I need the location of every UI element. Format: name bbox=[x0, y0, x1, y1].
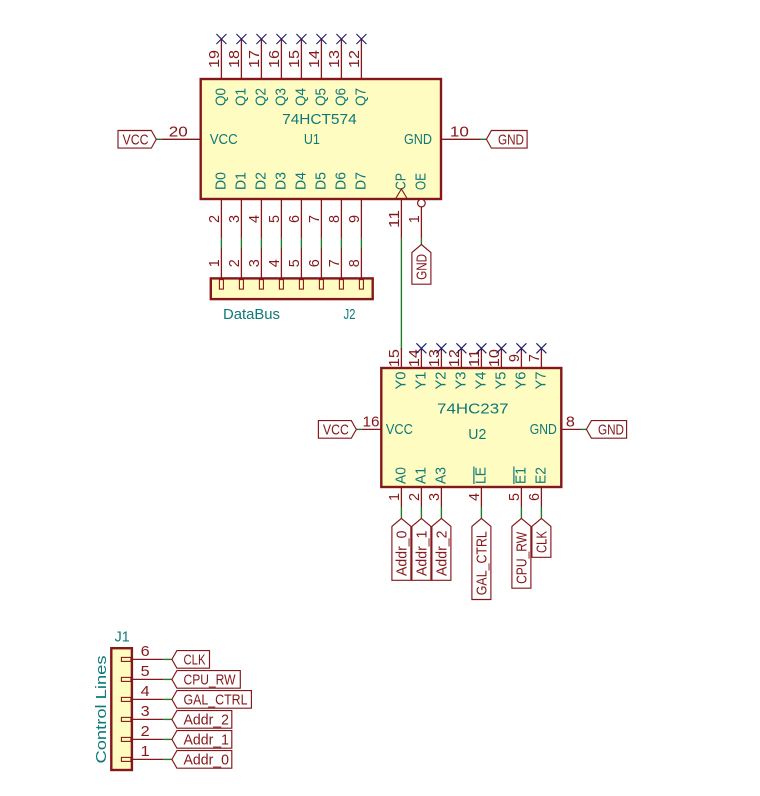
U1 pin 8 (D6) bottom bbox=[326, 172, 349, 239]
svg-text:E1: E1 bbox=[512, 467, 529, 484]
svg-text:CPU_RW: CPU_RW bbox=[184, 671, 237, 688]
J2 value DataBus bbox=[223, 306, 280, 323]
svg-text:2: 2 bbox=[141, 723, 150, 740]
svg-text:3: 3 bbox=[226, 215, 243, 223]
svg-text:4: 4 bbox=[141, 683, 150, 700]
U1 pin 15 (Q4) top bbox=[286, 39, 309, 106]
svg-text:5: 5 bbox=[286, 259, 303, 267]
svg-text:Y4: Y4 bbox=[472, 372, 489, 390]
svg-text:D4: D4 bbox=[292, 172, 309, 190]
no-connect X on U1 pin 14 bbox=[316, 34, 326, 44]
U1 pin 2 (D0) bottom bbox=[206, 172, 229, 239]
U1 pin 10 (GND) right bbox=[404, 123, 481, 148]
svg-text:VCC: VCC bbox=[323, 421, 349, 438]
svg-text:Q4: Q4 bbox=[292, 88, 309, 106]
J2 pin 7 bbox=[326, 248, 343, 289]
global label GND (below U1 OE) bbox=[412, 245, 431, 285]
U1 pin 11 (CP clock) bottom bbox=[386, 173, 409, 239]
U2 pin 7 (Y7) top bbox=[526, 348, 549, 389]
J1 pin 1 bbox=[121, 743, 163, 761]
U2 pin 4 (LE) bottom bbox=[466, 467, 489, 508]
wire J1 pin 6 to CLK label bbox=[163, 658, 172, 660]
no-connect X on U2 pin 9 bbox=[516, 343, 526, 353]
svg-text:Q5: Q5 bbox=[312, 88, 329, 106]
svg-text:J1: J1 bbox=[115, 629, 130, 646]
J1 pin 4 bbox=[121, 683, 163, 701]
svg-text:D2: D2 bbox=[252, 172, 269, 190]
IC U1 74HCT574 body bbox=[201, 79, 441, 199]
U2 pin 2 (A1) bottom bbox=[406, 467, 429, 507]
no-connect X on U1 pin 16 bbox=[276, 34, 286, 44]
global label CPU_RW (right of J1) bbox=[172, 671, 240, 689]
U1 pin 14 (Q5) top bbox=[306, 39, 329, 106]
svg-text:A3: A3 bbox=[432, 467, 449, 484]
svg-text:19: 19 bbox=[206, 50, 223, 68]
svg-text:Y6: Y6 bbox=[512, 372, 529, 390]
wire U2 E1 to CPU_RW label bbox=[520, 507, 522, 518]
J1 pin 6 bbox=[121, 643, 163, 661]
global label Addr_2 (right of J1) bbox=[172, 711, 232, 729]
no-connect X on U1 pin 19 bbox=[216, 34, 226, 44]
wire U1 D1 to J2 pin 2 bbox=[240, 239, 242, 248]
U1 pin 13 (Q6) top bbox=[326, 39, 349, 106]
global label Addr_0 (below U2) bbox=[392, 518, 411, 580]
U1 pin 1 (OE output enable) bottom with inversion bubble bbox=[406, 173, 429, 239]
svg-text:8: 8 bbox=[326, 215, 343, 223]
U2 pin 5 (E1) bottom bbox=[506, 467, 529, 508]
wire U2 LE to GAL_CTRL label bbox=[480, 507, 482, 518]
clock input triangle on U1 CP pin bbox=[395, 189, 407, 199]
U2 pin 12 (Y3) top bbox=[446, 348, 469, 389]
svg-text:GND: GND bbox=[413, 254, 430, 280]
U2 pin 16 (VCC) left bbox=[361, 413, 413, 438]
svg-text:Addr_1: Addr_1 bbox=[413, 531, 430, 577]
no-connect X on U2 pin 13 bbox=[436, 343, 446, 353]
J2 pin 1 bbox=[206, 248, 223, 289]
svg-text:Addr_2: Addr_2 bbox=[184, 711, 230, 728]
wire U1 D0 to J2 pin 1 bbox=[220, 239, 222, 248]
svg-text:Y0: Y0 bbox=[392, 372, 409, 390]
no-connect X on U2 pin 10 bbox=[496, 343, 506, 353]
U1 pin 4 (D2) bottom bbox=[246, 172, 269, 239]
svg-text:DataBus: DataBus bbox=[223, 306, 280, 323]
svg-text:Y5: Y5 bbox=[492, 372, 509, 390]
svg-text:Y3: Y3 bbox=[452, 372, 469, 390]
U2 pin 1 (A0) bottom bbox=[386, 467, 409, 507]
wire J1 pin 4 to GAL_CTRL label bbox=[163, 698, 172, 700]
svg-text:9: 9 bbox=[506, 354, 523, 362]
svg-text:5: 5 bbox=[266, 215, 283, 223]
svg-text:2: 2 bbox=[206, 215, 223, 223]
svg-text:20: 20 bbox=[169, 123, 188, 140]
svg-text:Q3: Q3 bbox=[272, 88, 289, 106]
svg-text:1: 1 bbox=[141, 743, 150, 760]
connector J1 body bar bbox=[111, 648, 132, 770]
wire U1 D7 to J2 pin 8 bbox=[360, 239, 362, 248]
svg-text:3: 3 bbox=[246, 259, 263, 267]
U2 pin 6 (E2) bottom bbox=[526, 467, 549, 507]
J1 pin 5 bbox=[121, 663, 163, 681]
connector J2 body bar bbox=[211, 278, 373, 299]
no-connect X on U1 pin 17 bbox=[256, 34, 266, 44]
J1 pin 2 bbox=[121, 723, 163, 741]
global label CLK (below U2) bbox=[532, 518, 551, 557]
J2 pin 8 bbox=[346, 248, 363, 289]
U2 pin 14 (Y1) top bbox=[406, 348, 429, 389]
wire U2 A0 to Addr_0 label bbox=[400, 507, 402, 518]
svg-text:3: 3 bbox=[426, 493, 443, 501]
svg-text:Control Lines: Control Lines bbox=[93, 656, 110, 764]
svg-text:14: 14 bbox=[306, 50, 323, 68]
wire U1 pin 1 (OE) to GND label bbox=[420, 239, 422, 245]
U1 pin 7 (D5) bottom bbox=[306, 172, 329, 239]
svg-text:15: 15 bbox=[386, 349, 403, 367]
U2 pin 9 (Y6) top bbox=[506, 348, 529, 389]
global label CLK (right of J1) bbox=[172, 651, 210, 669]
svg-text:D3: D3 bbox=[272, 172, 289, 190]
J2 reference designator bbox=[344, 306, 356, 323]
svg-text:CLK: CLK bbox=[184, 651, 206, 668]
global label GND (right of U2) bbox=[586, 421, 626, 439]
svg-text:6: 6 bbox=[306, 259, 323, 267]
svg-text:GAL_CTRL: GAL_CTRL bbox=[473, 531, 490, 595]
svg-text:Q2: Q2 bbox=[252, 88, 269, 106]
svg-text:5: 5 bbox=[141, 663, 150, 680]
U2 pin 13 (Y2) top bbox=[426, 348, 449, 389]
svg-text:12: 12 bbox=[346, 50, 363, 68]
wire U1 D2 to J2 pin 3 bbox=[260, 239, 262, 248]
svg-text:D7: D7 bbox=[352, 172, 369, 190]
wire U1 D3 to J2 pin 4 bbox=[280, 239, 282, 248]
svg-text:11: 11 bbox=[386, 210, 403, 228]
J2 pin 4 bbox=[266, 248, 283, 289]
svg-text:Q0: Q0 bbox=[212, 88, 229, 106]
svg-text:U1: U1 bbox=[304, 131, 320, 148]
svg-text:LE: LE bbox=[472, 467, 489, 484]
svg-text:16: 16 bbox=[266, 50, 283, 68]
global label CPU_RW (below U2) bbox=[512, 518, 531, 588]
J2 pin 6 bbox=[306, 248, 323, 289]
svg-text:Addr_2: Addr_2 bbox=[433, 531, 450, 577]
svg-text:U2: U2 bbox=[468, 426, 486, 443]
svg-text:10: 10 bbox=[486, 349, 503, 367]
svg-text:D5: D5 bbox=[312, 172, 329, 190]
svg-text:GND: GND bbox=[404, 131, 432, 148]
svg-text:74HCT574: 74HCT574 bbox=[282, 111, 357, 128]
global label VCC (left of U1) bbox=[118, 131, 156, 149]
svg-text:GAL_CTRL: GAL_CTRL bbox=[184, 691, 248, 708]
svg-text:13: 13 bbox=[326, 50, 343, 68]
global label Addr_0 (right of J1) bbox=[172, 751, 232, 769]
wire VCC label to U2 pin 16 bbox=[356, 428, 361, 430]
svg-text:GND: GND bbox=[530, 421, 557, 438]
J1 reference designator bbox=[115, 629, 130, 646]
svg-text:Q7: Q7 bbox=[352, 88, 369, 106]
svg-text:4: 4 bbox=[466, 493, 483, 501]
U1 pin 6 (D4) bottom bbox=[286, 172, 309, 239]
svg-text:VCC: VCC bbox=[210, 131, 238, 148]
svg-text:16: 16 bbox=[363, 413, 380, 430]
svg-text:7: 7 bbox=[326, 259, 343, 267]
svg-text:Y2: Y2 bbox=[432, 372, 449, 390]
wire VCC label to U1 pin 20 bbox=[156, 138, 161, 140]
svg-text:OE: OE bbox=[412, 173, 429, 190]
svg-text:2: 2 bbox=[406, 493, 423, 501]
svg-text:2: 2 bbox=[226, 259, 243, 267]
svg-text:11: 11 bbox=[466, 349, 483, 367]
wire U2 A3 to Addr_2 label bbox=[440, 507, 442, 518]
U1 pin 3 (D1) bottom bbox=[226, 172, 249, 239]
no-connect X on U1 pin 15 bbox=[296, 34, 306, 44]
no-connect X on U2 pin 14 bbox=[416, 343, 426, 353]
svg-text:6: 6 bbox=[526, 493, 543, 501]
no-connect X on U1 pin 18 bbox=[236, 34, 246, 44]
svg-text:6: 6 bbox=[141, 643, 150, 660]
global label GAL_CTRL (below U2) bbox=[472, 518, 491, 599]
wire U2 E2 to CLK label bbox=[540, 507, 542, 518]
svg-text:GND: GND bbox=[498, 131, 524, 148]
J1 pin 3 bbox=[121, 703, 163, 721]
J1 value Control Lines bbox=[93, 656, 110, 764]
U1 pin 9 (D7) bottom bbox=[346, 172, 369, 239]
wire U1 D5 to J2 pin 6 bbox=[320, 239, 322, 248]
svg-text:8: 8 bbox=[566, 413, 575, 430]
no-connect X on U2 pin 11 bbox=[476, 343, 486, 353]
wire U2 A1 to Addr_1 label bbox=[420, 507, 422, 518]
wire U1 D6 to J2 pin 7 bbox=[340, 239, 342, 248]
wire U1 D4 to J2 pin 5 bbox=[300, 239, 302, 248]
U2 pin 3 (A3) bottom bbox=[426, 467, 449, 507]
svg-text:E2: E2 bbox=[532, 467, 549, 484]
svg-text:CLK: CLK bbox=[533, 531, 550, 553]
svg-text:Q6: Q6 bbox=[332, 88, 349, 106]
svg-text:15: 15 bbox=[286, 50, 303, 68]
U1 pin 12 (Q7) top bbox=[346, 39, 369, 106]
U2 value 74HC237 bbox=[437, 401, 509, 418]
svg-text:Q1: Q1 bbox=[232, 88, 249, 106]
svg-text:4: 4 bbox=[246, 215, 263, 223]
no-connect X on U2 pin 12 bbox=[456, 343, 466, 353]
wire U2 pin 8 to GND label bbox=[581, 428, 586, 430]
svg-text:D1: D1 bbox=[232, 172, 249, 190]
svg-text:1: 1 bbox=[386, 493, 403, 501]
svg-text:D0: D0 bbox=[212, 172, 229, 190]
wire J1 pin 3 to Addr_2 label bbox=[163, 718, 172, 720]
svg-text:5: 5 bbox=[506, 493, 523, 501]
wire J1 pin 5 to CPU_RW label bbox=[163, 678, 172, 680]
IC U2 74HC237 body bbox=[381, 368, 561, 487]
svg-text:Addr_1: Addr_1 bbox=[184, 731, 230, 748]
global label GAL_CTRL (right of J1) bbox=[172, 691, 252, 709]
no-connect X on U2 pin 7 bbox=[536, 343, 546, 353]
svg-text:17: 17 bbox=[246, 50, 263, 68]
svg-text:Addr_0: Addr_0 bbox=[184, 751, 230, 768]
U1 pin 16 (Q3) top bbox=[266, 39, 289, 106]
J2 pin 3 bbox=[246, 248, 263, 289]
svg-text:12: 12 bbox=[446, 349, 463, 367]
U2 pin 10 (Y5) top bbox=[486, 348, 509, 389]
U1 pin 17 (Q2) top bbox=[246, 39, 269, 106]
svg-text:14: 14 bbox=[406, 349, 423, 367]
svg-text:13: 13 bbox=[426, 349, 443, 367]
U1 pin 18 (Q1) top bbox=[226, 39, 249, 106]
svg-text:1: 1 bbox=[406, 215, 423, 223]
svg-text:A0: A0 bbox=[392, 467, 409, 484]
J2 pin 5 bbox=[286, 248, 303, 289]
global label GND (right of U1) bbox=[486, 131, 527, 149]
svg-text:6: 6 bbox=[286, 215, 303, 223]
svg-text:9: 9 bbox=[346, 215, 363, 223]
svg-text:4: 4 bbox=[266, 259, 283, 267]
svg-text:7: 7 bbox=[526, 354, 543, 362]
svg-text:Addr_0: Addr_0 bbox=[393, 531, 410, 577]
U1 pin 20 (VCC) left bbox=[161, 123, 238, 148]
wire J1 pin 1 to Addr_0 label bbox=[163, 758, 172, 760]
svg-text:74HC237: 74HC237 bbox=[437, 401, 509, 418]
svg-text:18: 18 bbox=[226, 50, 243, 68]
global label VCC (left of U2) bbox=[318, 421, 356, 439]
svg-text:D6: D6 bbox=[332, 172, 349, 190]
no-connect X on U1 pin 13 bbox=[336, 34, 346, 44]
wire U1 pin 10 to GND label bbox=[481, 138, 487, 140]
svg-text:8: 8 bbox=[346, 259, 363, 267]
U1 value 74HCT574 bbox=[282, 111, 357, 128]
svg-text:VCC: VCC bbox=[123, 131, 149, 148]
wire J1 pin 2 to Addr_1 label bbox=[163, 738, 172, 740]
svg-text:CPU_RW: CPU_RW bbox=[513, 531, 530, 584]
svg-text:A1: A1 bbox=[412, 467, 429, 484]
svg-text:1: 1 bbox=[206, 259, 223, 267]
svg-text:GND: GND bbox=[598, 421, 624, 438]
U2 pin 8 (GND) right bbox=[530, 413, 582, 438]
U1 reference designator bbox=[304, 131, 320, 148]
svg-text:Y1: Y1 bbox=[412, 372, 429, 390]
no-connect X on U1 pin 12 bbox=[356, 34, 366, 44]
svg-text:7: 7 bbox=[306, 215, 323, 223]
U2 pin 11 (Y4) top bbox=[466, 348, 489, 389]
U2 reference designator bbox=[468, 426, 486, 443]
U2 pin 15 (Y0) top bbox=[386, 348, 409, 389]
U1 pin 19 (Q0) top bbox=[206, 39, 229, 106]
wire U1 pin 11 (CP) to U2 pin 15 (Y0) bbox=[400, 239, 402, 350]
global label Addr_1 (below U2) bbox=[412, 518, 431, 580]
svg-text:VCC: VCC bbox=[386, 421, 413, 438]
U1 pin 5 (D3) bottom bbox=[266, 172, 289, 239]
svg-text:CP: CP bbox=[392, 173, 409, 190]
svg-text:Y7: Y7 bbox=[532, 372, 549, 390]
svg-text:10: 10 bbox=[450, 123, 469, 140]
J2 pin 2 bbox=[226, 248, 243, 289]
svg-text:J2: J2 bbox=[344, 306, 356, 323]
global label Addr_1 (right of J1) bbox=[172, 731, 232, 749]
global label Addr_2 (below U2) bbox=[432, 518, 451, 580]
svg-text:3: 3 bbox=[141, 703, 150, 720]
